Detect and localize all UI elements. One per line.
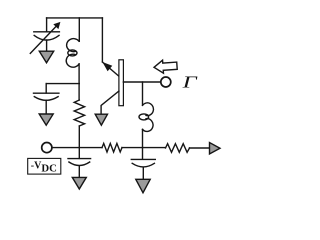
wire C2 stub	[45, 84, 47, 93]
wire to output arrow	[190, 147, 210, 149]
capacitor C3	[68, 159, 91, 178]
terminal circle port Gamma	[161, 77, 171, 87]
block arrow (reflection direction)	[154, 59, 178, 74]
resistor R1	[74, 100, 84, 126]
resistor R2	[102, 143, 122, 152]
wire R1 to bias bus	[78, 126, 80, 148]
wire C4 column	[142, 148, 144, 160]
ground (below C3)	[72, 177, 86, 189]
ground (below C2)	[39, 114, 53, 125]
resistor R3	[166, 144, 190, 153]
wire L1 top stub	[78, 18, 80, 41]
capacitor C2	[34, 93, 59, 114]
terminal circle -VDC	[42, 143, 52, 153]
ground (below varactor)	[39, 51, 53, 63]
wire varactor top stub	[46, 18, 48, 31]
capacitor C4	[131, 159, 155, 180]
svg-text:Γ: Γ	[181, 73, 198, 92]
transistor Q1 emitter lead with arrow	[102, 62, 119, 76]
ground (below C4)	[136, 179, 150, 193]
transistor Q1 base bar	[119, 60, 124, 106]
wire bias bus middle segment	[122, 147, 166, 149]
inductor L2	[139, 103, 153, 148]
wire L2 top stub	[142, 82, 144, 105]
label -VDC box	[28, 158, 61, 174]
wire emitter column	[101, 18, 103, 62]
transistor Q1 collector lead	[101, 91, 119, 114]
wire bias bus left segment	[52, 147, 102, 149]
output arrow	[210, 143, 221, 155]
wire C3 column	[78, 148, 80, 159]
wire top rail from varactor to emitter column	[47, 17, 103, 19]
wire left mid (C2 node to L1/R1 node)	[46, 83, 79, 85]
ground (below collector)	[95, 114, 107, 125]
wire base lead / port line	[123, 81, 160, 83]
varactor C1 (variable capacitor)	[30, 22, 60, 54]
inductor L1	[66, 39, 79, 100]
